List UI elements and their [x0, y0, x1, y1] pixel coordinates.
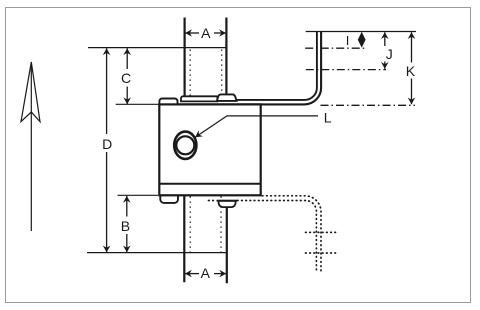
svg-text:C: C	[121, 70, 131, 86]
svg-text:D: D	[102, 136, 112, 152]
svg-text:A: A	[201, 265, 211, 281]
svg-text:L: L	[324, 109, 332, 125]
svg-text:A: A	[201, 25, 211, 41]
svg-text:B: B	[121, 218, 130, 234]
svg-text:I: I	[346, 33, 350, 48]
svg-text:J: J	[386, 46, 393, 62]
svg-text:K: K	[406, 63, 416, 79]
